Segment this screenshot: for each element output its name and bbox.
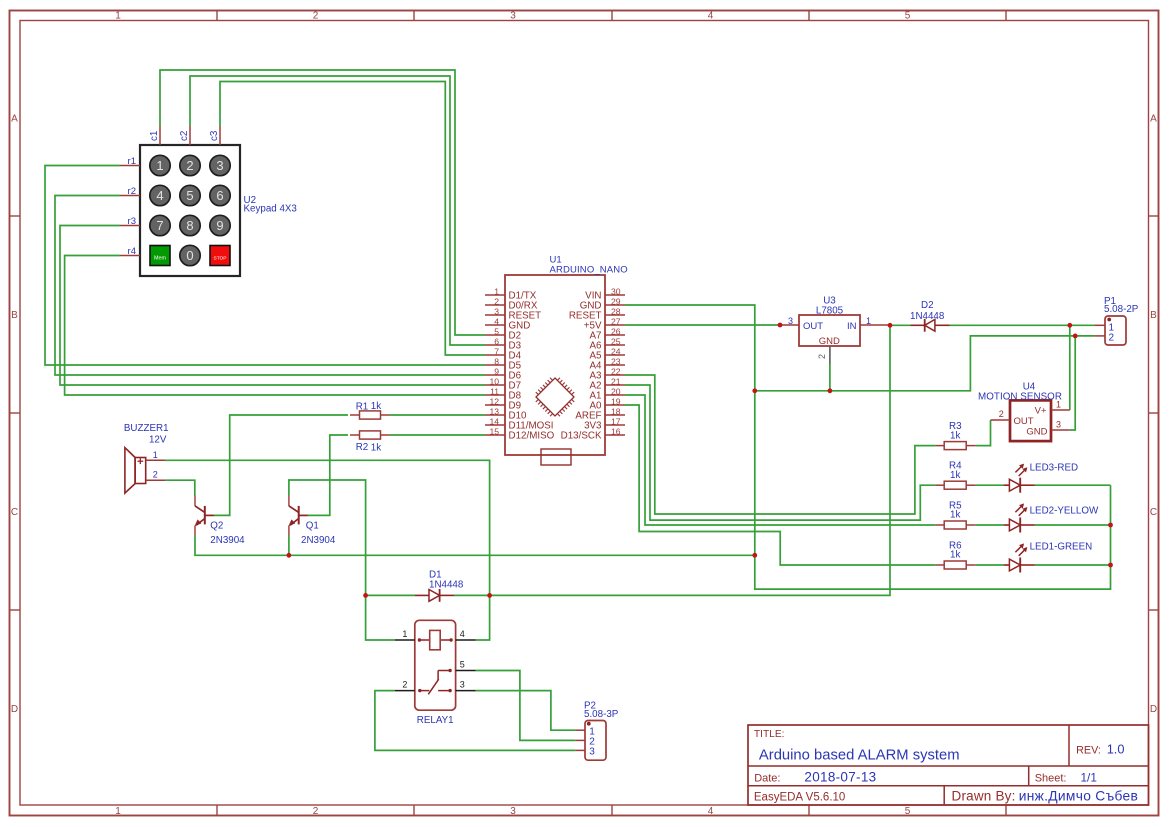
svg-text:ARDUINO_NANO: ARDUINO_NANO xyxy=(550,265,628,276)
keypad U2 reference labels xyxy=(244,195,298,215)
wire U1 GND pin29 to LED cathodes xyxy=(625,305,1111,589)
svg-text:25: 25 xyxy=(611,337,621,347)
wire LED3 cathode xyxy=(1035,484,1111,486)
svg-text:Date:: Date: xyxy=(754,772,780,784)
svg-text:R1: R1 xyxy=(356,401,369,412)
junction node GND at rail left xyxy=(752,388,757,393)
svg-text:2018-07-13: 2018-07-13 xyxy=(804,769,876,784)
svg-text:Q2: Q2 xyxy=(210,521,223,532)
svg-text:3: 3 xyxy=(494,307,499,317)
svg-text:TITLE:: TITLE: xyxy=(754,729,785,740)
wire R6 to LED1 xyxy=(976,564,1004,566)
svg-text:7: 7 xyxy=(494,347,499,357)
svg-text:1N4448: 1N4448 xyxy=(910,311,945,322)
svg-text:A: A xyxy=(11,114,18,125)
title block text xyxy=(754,729,1138,803)
svg-text:Drawn By:: Drawn By: xyxy=(952,789,1016,804)
svg-text:GND: GND xyxy=(1026,426,1047,437)
svg-text:LED2-YELLOW: LED2-YELLOW xyxy=(1030,506,1099,517)
svg-text:5: 5 xyxy=(186,188,193,203)
wire R3 to U1 A3 xyxy=(625,375,935,514)
svg-text:B: B xyxy=(11,310,18,321)
svg-text:r3: r3 xyxy=(128,216,136,227)
resistor R4 1k xyxy=(935,461,976,490)
svg-text:Arduino based ALARM system: Arduino based ALARM system xyxy=(759,747,960,763)
svg-text:Mem: Mem xyxy=(154,256,166,262)
wire R1 to Q2 base xyxy=(214,415,349,515)
svg-text:15: 15 xyxy=(489,427,499,437)
svg-text:OUT: OUT xyxy=(1014,416,1034,427)
wire Q1 emitter xyxy=(288,535,290,555)
svg-text:5.08-3P: 5.08-3P xyxy=(584,709,619,720)
svg-text:1: 1 xyxy=(402,629,407,639)
svg-text:16: 16 xyxy=(611,427,621,437)
svg-text:3: 3 xyxy=(788,316,793,326)
svg-text:2: 2 xyxy=(313,806,319,817)
junction node GND at LED2 xyxy=(1108,523,1113,528)
svg-text:инж.Димчо Събев: инж.Димчо Събев xyxy=(1019,789,1138,804)
svg-text:18: 18 xyxy=(611,407,621,417)
wire R5 to U1 A1 xyxy=(625,395,935,525)
svg-text:LED1-GREEN: LED1-GREEN xyxy=(1030,541,1093,552)
junction node D1 cathode xyxy=(487,593,492,598)
wire keypad c2 to U1 D3 xyxy=(190,76,485,345)
U1 reference label xyxy=(550,254,628,275)
svg-text:9: 9 xyxy=(494,367,499,377)
svg-text:2: 2 xyxy=(186,158,193,173)
svg-text:STOP: STOP xyxy=(214,256,227,262)
wire relay pin3 to P2 pin1 xyxy=(476,691,576,731)
LED LED1-GREEN xyxy=(1004,541,1093,572)
svg-text:5: 5 xyxy=(905,11,911,22)
svg-text:1: 1 xyxy=(494,287,499,297)
svg-text:RELAY1: RELAY1 xyxy=(417,715,454,726)
svg-text:OUT: OUT xyxy=(803,321,823,332)
svg-text:MOTION SENSOR: MOTION SENSOR xyxy=(978,391,1062,402)
svg-text:C: C xyxy=(1150,507,1157,518)
svg-text:c2: c2 xyxy=(179,131,190,141)
svg-text:20: 20 xyxy=(611,387,621,397)
svg-text:10: 10 xyxy=(489,377,499,387)
op-amp U1 ARDUINO_NANO body and pins xyxy=(485,275,625,455)
svg-text:7: 7 xyxy=(156,218,163,233)
svg-text:24: 24 xyxy=(611,347,621,357)
junction node +12V at P1 pin1 xyxy=(1067,323,1072,328)
svg-text:2: 2 xyxy=(1109,333,1115,344)
U1 usb connector glyph xyxy=(541,449,571,465)
wire D1 to 12V net xyxy=(490,325,890,595)
svg-text:8: 8 xyxy=(186,218,193,233)
svg-text:2N3904: 2N3904 xyxy=(301,535,336,546)
wire D1 cathode link xyxy=(454,594,490,596)
title block grid xyxy=(748,725,1149,805)
svg-text:Sheet:: Sheet: xyxy=(1035,772,1067,784)
wire LED1 cathode xyxy=(1035,564,1111,566)
svg-text:19: 19 xyxy=(611,397,621,407)
svg-text:13: 13 xyxy=(489,407,499,417)
svg-text:5.08-2P: 5.08-2P xyxy=(1104,304,1139,315)
svg-text:r2: r2 xyxy=(128,186,136,197)
junction node GND at P1 pin2 xyxy=(1073,334,1078,339)
relay RELAY1 xyxy=(395,620,476,726)
svg-text:2: 2 xyxy=(153,470,158,480)
resistor R6 1k xyxy=(935,541,976,570)
svg-text:14: 14 xyxy=(489,417,499,427)
svg-text:D2: D2 xyxy=(921,300,934,311)
diode D1 1N4448 xyxy=(415,570,464,602)
svg-text:2N3904: 2N3904 xyxy=(210,535,245,546)
svg-text:A: A xyxy=(1150,114,1157,125)
U1 chip glyph xyxy=(536,378,574,416)
svg-text:23: 23 xyxy=(611,357,621,367)
junction node D1 anode xyxy=(363,593,368,598)
svg-text:26: 26 xyxy=(611,327,621,337)
svg-text:5: 5 xyxy=(460,660,465,670)
wire Q2 emitter to GND rail xyxy=(195,535,755,555)
svg-text:27: 27 xyxy=(611,317,621,327)
wire R6 to U1 A0 xyxy=(625,405,935,565)
svg-text:Q1: Q1 xyxy=(306,521,319,532)
svg-text:11: 11 xyxy=(490,387,499,397)
svg-text:1: 1 xyxy=(115,806,121,817)
svg-text:3: 3 xyxy=(510,11,516,22)
svg-text:B: B xyxy=(1150,310,1157,321)
svg-text:30: 30 xyxy=(611,287,621,297)
svg-text:1k: 1k xyxy=(950,470,960,481)
wire U3 GND pin to rail xyxy=(829,364,831,391)
svg-text:4: 4 xyxy=(708,806,714,817)
wire relay pin2 to P2 pin3 xyxy=(375,691,575,751)
svg-text:8: 8 xyxy=(494,357,499,367)
svg-text:1k: 1k xyxy=(371,401,381,412)
svg-text:5: 5 xyxy=(905,806,911,817)
wire U1 +5V pin27 to U3 OUT xyxy=(625,324,780,326)
voltage regulator U3 L7805 xyxy=(780,296,890,365)
wire Q1 collector to relay pin1 / D1 anode xyxy=(289,480,395,640)
wire buzzer pin1 to relay pin4 / D1 cathode xyxy=(165,460,490,640)
buzzer BUZZER1 12V xyxy=(124,423,169,493)
svg-text:1.0: 1.0 xyxy=(1107,741,1125,756)
svg-text:3: 3 xyxy=(1056,419,1061,429)
svg-text:3: 3 xyxy=(460,680,465,690)
motion sensor U4 xyxy=(978,381,1070,441)
svg-text:c3: c3 xyxy=(209,130,220,141)
svg-text:r4: r4 xyxy=(128,246,136,257)
keypad U2 digit buttons xyxy=(150,155,230,265)
svg-text:22: 22 xyxy=(611,367,621,377)
svg-text:29: 29 xyxy=(611,297,621,307)
svg-text:1: 1 xyxy=(115,11,121,22)
resistor R5 1k xyxy=(935,501,976,530)
svg-text:1: 1 xyxy=(866,316,871,326)
svg-text:1N4448: 1N4448 xyxy=(429,580,464,591)
wire P1 pin2 to GND rail xyxy=(755,336,1095,391)
wire P1 pin1 to U4 V+ xyxy=(1069,325,1071,410)
transistor Q2 2N3904 xyxy=(194,496,245,547)
wire D1 anode link xyxy=(366,594,415,596)
svg-text:3: 3 xyxy=(216,158,223,173)
svg-text:1/1: 1/1 xyxy=(1081,770,1097,784)
svg-text:2: 2 xyxy=(999,409,1004,419)
wire relay pin5 to P2 pin2 xyxy=(476,671,576,741)
svg-text:R2: R2 xyxy=(356,442,369,453)
wire R1 to U1 D10 xyxy=(390,414,485,416)
resistor R3 1k xyxy=(935,421,976,450)
wire D2 to P1 pin1 xyxy=(950,324,1095,326)
junction node GND at emitter rail xyxy=(752,553,757,558)
svg-text:6: 6 xyxy=(216,188,223,203)
svg-text:1: 1 xyxy=(156,158,163,173)
svg-text:D12/MISO: D12/MISO xyxy=(509,430,555,441)
svg-text:D: D xyxy=(1150,704,1157,715)
keypad U2 pin stubs xyxy=(120,126,220,256)
svg-text:12: 12 xyxy=(489,397,499,407)
svg-text:L7805: L7805 xyxy=(816,306,844,317)
svg-text:3: 3 xyxy=(589,747,595,758)
svg-text:r1: r1 xyxy=(128,156,136,167)
svg-text:4: 4 xyxy=(460,629,465,639)
svg-text:1k: 1k xyxy=(950,430,960,441)
svg-text:2: 2 xyxy=(402,680,407,690)
connector P1 5.08-2P xyxy=(1094,296,1138,345)
keypad U2 body xyxy=(140,145,240,276)
svg-text:D: D xyxy=(11,704,18,715)
wire keypad c1 to U1 D2 xyxy=(160,70,485,335)
svg-text:1k: 1k xyxy=(950,510,960,521)
svg-text:LED3-RED: LED3-RED xyxy=(1030,463,1078,474)
wire 12V junction to D2 xyxy=(890,324,910,326)
svg-text:17: 17 xyxy=(611,417,621,427)
junction node GND at LED1 xyxy=(1108,563,1113,568)
svg-text:c1: c1 xyxy=(149,131,160,141)
wire U4 OUT to R3 xyxy=(976,420,991,446)
svg-text:1: 1 xyxy=(153,450,158,460)
svg-text:GND: GND xyxy=(819,336,840,347)
junction node +12V at U3 IN / D2 xyxy=(888,323,893,328)
svg-text:C: C xyxy=(11,507,18,518)
svg-text:9: 9 xyxy=(216,218,223,233)
svg-text:6: 6 xyxy=(494,337,499,347)
svg-text:EasyEDA V5.6.10: EasyEDA V5.6.10 xyxy=(754,792,845,804)
wire R4 to U1 A2 xyxy=(625,385,935,520)
junction node Q1 emitter xyxy=(287,553,292,558)
svg-text:2: 2 xyxy=(494,297,499,307)
wire R2 to Q1 base xyxy=(308,435,349,515)
wire R4 to LED3 xyxy=(976,484,1004,486)
junction node GND at U3 pin2 xyxy=(828,388,833,393)
transistor Q1 2N3904 xyxy=(288,496,336,547)
svg-text:1k: 1k xyxy=(371,443,381,454)
svg-text:BUZZER1: BUZZER1 xyxy=(124,423,169,434)
svg-text:1k: 1k xyxy=(950,550,960,561)
junction node +5V at U3 OUT xyxy=(778,323,783,328)
wire U4 GND branch xyxy=(1070,336,1075,430)
svg-text:V+: V+ xyxy=(1035,406,1047,417)
wire keypad c3 to U1 D4 xyxy=(220,82,485,356)
wire LED2 cathode xyxy=(1035,524,1111,526)
svg-text:5: 5 xyxy=(494,327,499,337)
wire keypad r2 to U1 D6 xyxy=(55,196,485,376)
svg-text:4: 4 xyxy=(156,188,163,203)
svg-text:0: 0 xyxy=(186,248,193,263)
svg-text:2: 2 xyxy=(817,354,827,359)
resistor R2 1k xyxy=(350,431,390,454)
wire buzzer pin2 to Q2 collector xyxy=(165,480,195,496)
wire keypad r4 to U1 D8 xyxy=(65,256,485,396)
svg-text:12V: 12V xyxy=(149,435,167,446)
svg-text:3: 3 xyxy=(510,806,516,817)
LED LED2-YELLOW xyxy=(1004,503,1099,532)
resistor R1 1k xyxy=(350,401,390,419)
svg-text:D13/SCK: D13/SCK xyxy=(561,430,602,441)
diode D2 1N4448 xyxy=(910,300,950,332)
svg-text:2: 2 xyxy=(313,11,319,22)
LED LED3-RED xyxy=(1004,463,1078,493)
wire R5 to LED2 xyxy=(976,524,1004,526)
wire keypad r3 to U1 D7 xyxy=(60,226,485,386)
keypad U2 STOP button xyxy=(210,246,230,266)
wire keypad r1 to U1 D5 xyxy=(45,166,485,366)
svg-text:21: 21 xyxy=(611,377,621,387)
svg-text:Keypad 4X3: Keypad 4X3 xyxy=(244,204,298,215)
svg-text:4: 4 xyxy=(494,317,499,327)
keypad U2 pin labels xyxy=(128,130,220,257)
svg-text:28: 28 xyxy=(611,307,621,317)
svg-text:IN: IN xyxy=(847,321,857,332)
svg-text:REV:: REV: xyxy=(1076,744,1101,756)
wire R2 to U1 D12 xyxy=(390,434,485,436)
keypad U2 Mem button xyxy=(150,246,170,266)
svg-text:4: 4 xyxy=(708,11,714,22)
connector P2 5.08-3P xyxy=(575,700,618,760)
